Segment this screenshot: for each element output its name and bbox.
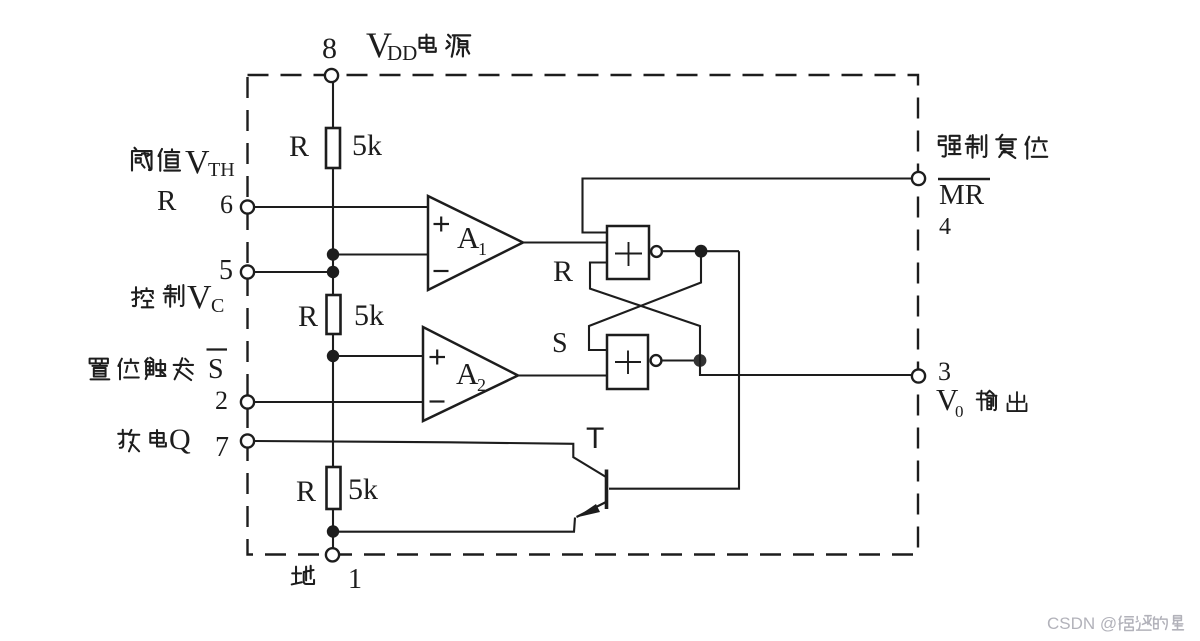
op-amp A1 plus input mark [434, 223, 450, 225]
wire S bubble to node [662, 359, 701, 361]
svg-text:4: 4 [939, 214, 951, 240]
forced reset label qiang [939, 136, 961, 157]
svg-text:V: V [187, 279, 212, 316]
R latch plus mark [615, 253, 642, 255]
output label chu [1008, 392, 1027, 411]
discharge label dian [150, 430, 166, 447]
wire R output down to T base [609, 251, 739, 489]
wire pin4 MR to R latch [583, 179, 913, 233]
svg-text:DD: DD [387, 41, 417, 65]
wire pin7 to T collector [254, 441, 606, 477]
watermark xing [1173, 616, 1184, 630]
transistor T base bar [605, 470, 609, 510]
VDD power label yuan [446, 35, 470, 57]
watermark de [1153, 617, 1167, 630]
wire T emitter to ground rail [333, 518, 575, 532]
pin 5 terminal [241, 265, 254, 278]
pin 1 terminal [326, 548, 339, 561]
IC boundary dashed box [248, 75, 919, 555]
svg-text:8: 8 [322, 32, 337, 65]
watermark jue [1119, 616, 1133, 630]
resistor R1 body [326, 128, 340, 168]
wire R3 to pin1 [332, 509, 334, 555]
wire S output to pin3 [700, 361, 912, 376]
wire R output to S input crossover [589, 251, 701, 350]
svg-text:1: 1 [348, 564, 362, 595]
svg-text:5k: 5k [354, 299, 384, 332]
junction node divider lower tap [327, 350, 339, 362]
svg-text:C: C [211, 295, 224, 317]
threshold label yu [132, 148, 152, 171]
op-amp A2 plus input mark [430, 356, 446, 358]
svg-text:0: 0 [955, 402, 964, 421]
set trigger label chu [145, 358, 165, 379]
op-amp A2 body [423, 327, 518, 421]
svg-text:2: 2 [477, 375, 486, 395]
watermark ji [1136, 616, 1151, 630]
junction node S output [694, 354, 707, 367]
svg-text:7: 7 [215, 432, 229, 463]
wire R2 to R3 [332, 334, 334, 467]
S latch gate body [607, 335, 648, 389]
threshold label zhi [159, 149, 181, 171]
junction node divider upper tap [327, 248, 339, 260]
S latch plus mark [615, 361, 641, 363]
svg-text:2: 2 [215, 386, 228, 415]
ground label di [292, 566, 314, 585]
forced reset label fu [996, 135, 1016, 158]
R latch gate body [607, 226, 649, 279]
wire S output to R input crossover [590, 263, 700, 361]
svg-text:5k: 5k [352, 129, 382, 162]
VDD power label dian [420, 35, 436, 52]
S latch output bubble [651, 355, 662, 366]
pin 4 terminal [912, 172, 925, 185]
svg-text:TH: TH [208, 159, 235, 181]
junction node R output [695, 245, 708, 258]
wire R bubble to node [662, 250, 701, 252]
set trigger label wei [118, 359, 138, 380]
svg-text:Q: Q [169, 423, 191, 456]
discharge label fang [118, 430, 139, 452]
junction node pin5 tap [327, 266, 339, 278]
output label shu [977, 391, 997, 411]
R latch output bubble [651, 246, 662, 257]
set trigger label zhi [90, 359, 110, 380]
set trigger label fa [174, 358, 193, 380]
pin 3 terminal [912, 369, 925, 382]
junction node ground tap [327, 525, 339, 537]
svg-text:1: 1 [478, 239, 487, 259]
wire pin5 to divider [254, 271, 333, 273]
forced reset label wei [1026, 137, 1048, 159]
wire pin2 to A2 minus [254, 401, 423, 403]
wire A1 output to R latch [523, 241, 607, 243]
op-amp A2 minus input mark [430, 400, 445, 402]
svg-text:MR: MR [939, 179, 985, 211]
svg-text:6: 6 [220, 190, 233, 219]
pin 2 terminal [241, 395, 254, 408]
wire R output to feedback corner [701, 250, 739, 252]
wire pin6 to A1 plus [254, 206, 428, 208]
pin 8 terminal [325, 69, 338, 82]
wire tap to A1 minus [333, 253, 428, 255]
svg-text:5: 5 [219, 255, 233, 286]
resistor R2 body [327, 295, 341, 334]
svg-text:S: S [552, 328, 568, 359]
pin 6 terminal [241, 200, 254, 213]
svg-text:A: A [457, 220, 480, 255]
transistor T emitter arrow [577, 502, 607, 517]
svg-text:S: S [208, 354, 224, 385]
svg-text:R: R [298, 300, 318, 333]
svg-text:R: R [296, 475, 316, 508]
wire A2 output to S latch [518, 374, 607, 376]
control label zhi [164, 285, 184, 307]
op-amp A1 minus input mark [434, 270, 449, 272]
svg-text:R: R [289, 130, 309, 163]
svg-text:CSDN @: CSDN @ [1047, 614, 1117, 633]
svg-text:5k: 5k [348, 473, 378, 506]
pin 7 terminal [241, 434, 254, 447]
svg-text:R: R [553, 255, 573, 288]
wire R1 to R2 [332, 168, 334, 295]
resistor R3 body [327, 467, 341, 509]
svg-text:V: V [185, 144, 210, 181]
forced reset label zhi [966, 135, 987, 158]
control label kong [132, 287, 153, 307]
svg-text:A: A [456, 356, 479, 391]
svg-text:R: R [157, 185, 177, 217]
wire tap to A2 plus [333, 355, 423, 357]
wire pin8 to R1 [332, 75, 334, 128]
svg-text:T: T [586, 422, 604, 455]
op-amp A1 body [428, 196, 523, 290]
